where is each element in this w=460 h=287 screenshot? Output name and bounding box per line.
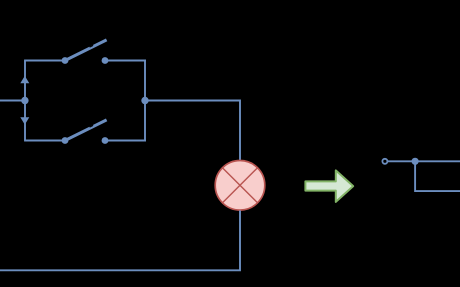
wire: input from left edge to node A bbox=[0, 100, 25, 102]
switch S2 lever bbox=[65, 120, 107, 141]
wire: output from node B to lamp (horizontal then down) bbox=[145, 101, 240, 161]
flow arrow up on left rail bbox=[20, 76, 29, 83]
wire: top branch right bbox=[105, 60, 146, 62]
switch S2 left contact bbox=[62, 137, 69, 144]
wire: node C drop and right to edge bbox=[415, 161, 460, 191]
switch S1 left contact bbox=[62, 57, 69, 64]
open terminal circle bbox=[382, 159, 387, 164]
flow arrow down on left rail bbox=[20, 117, 29, 124]
switch S1 lever bbox=[65, 40, 107, 61]
wire: right rail vertical bbox=[144, 60, 146, 142]
wire: top branch left bbox=[24, 60, 65, 62]
node A junction dot bbox=[21, 97, 28, 104]
wire: lamp bottom return (down then left to edge) bbox=[0, 211, 240, 271]
switch S2 lever notch bbox=[90, 125, 94, 127]
wire: terminal to node C bbox=[388, 160, 415, 162]
wire: node C to right edge bbox=[415, 160, 460, 162]
node B junction dot on right rail bbox=[141, 97, 148, 104]
switch S1 right contact bbox=[102, 57, 109, 64]
switch S2 right contact bbox=[102, 137, 109, 144]
wire: bottom branch left bbox=[24, 140, 65, 142]
lamp L1 cross stroke 2 bbox=[222, 168, 257, 203]
node C junction dot bbox=[412, 158, 419, 165]
wire: left rail vertical bbox=[24, 61, 26, 141]
lamp L1 cross stroke 1 bbox=[222, 168, 257, 203]
lamp L1 body bbox=[215, 161, 265, 211]
block arrow symbol (transform indicator) bbox=[305, 170, 353, 202]
wire: bottom branch right bbox=[105, 140, 146, 142]
switch S1 lever notch bbox=[90, 45, 94, 47]
